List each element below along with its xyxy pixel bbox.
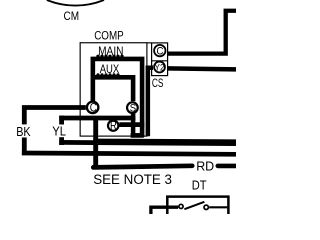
CS box [152,43,168,76]
svg-text:S: S [130,103,136,115]
svg-text:R: R [110,121,117,133]
terminal S [127,102,138,114]
terminal C of CS [154,45,165,58]
wire: L2 long line YL to right edge [59,142,236,143]
svg-text:BK: BK [16,124,31,139]
CS box divider [152,60,168,62]
switch contact circle right [204,205,208,209]
wire/border link between COMP and CS box tops [147,42,152,44]
svg-text:C: C [156,45,163,57]
svg-text:YL: YL [52,124,66,139]
wire: Y2 to right edge [167,68,236,69]
svg-text:COMP: COMP [94,30,124,42]
terminal C [87,102,99,115]
coil bumps AUX [96,73,99,76]
wire: YL top arm to S stub [59,116,135,121]
label BK (white backed) [15,124,32,139]
svg-text:RD: RD [196,158,214,173]
terminal R [108,120,118,132]
wire into DT from bottom edge [151,207,178,214]
switch right lead [209,206,227,208]
wire: link below S [131,133,144,138]
winding AUX: run and right vertical down to S [93,77,133,101]
svg-text:SEE NOTE 3: SEE NOTE 3 [93,172,172,187]
wire: BK from C terminal left and down [24,108,86,156]
wire: Y2 left branch down to L1 [148,68,153,137]
wire: YL vertical bar [59,116,64,145]
wire: vertical from YLS node down to RD line [93,118,98,167]
winding MAIN: C up, top run, right vertical down [93,59,142,137]
wire: R terminal to MAIN right vertical [119,122,144,127]
wire: RD line right segment [218,164,236,169]
coil bumps MAIN [96,55,99,58]
svg-text:C: C [90,103,97,115]
svg-text:CM: CM [64,11,80,23]
svg-text:Y2: Y2 [155,62,165,73]
wire: L4/RD line left segment [93,166,192,168]
switch blade [184,202,204,209]
wire: S stub down [131,111,136,137]
wire: L3 long line BK to right edge [22,153,236,154]
label YL (white backed) [51,124,68,139]
terminal Y2 of CS [154,62,165,74]
switch left lead [168,206,178,208]
wire: CS C terminal right, up, out top right [167,11,236,54]
svg-text:CS: CS [152,76,164,90]
DT box (defrost thermostat) [167,197,228,214]
motor CM (bottom arc of circle) [47,0,104,6]
switch contact circle left [179,204,183,208]
svg-text:DT: DT [192,178,207,192]
COMP box [80,43,147,136]
wire: L1 long line to right edge [93,139,236,144]
